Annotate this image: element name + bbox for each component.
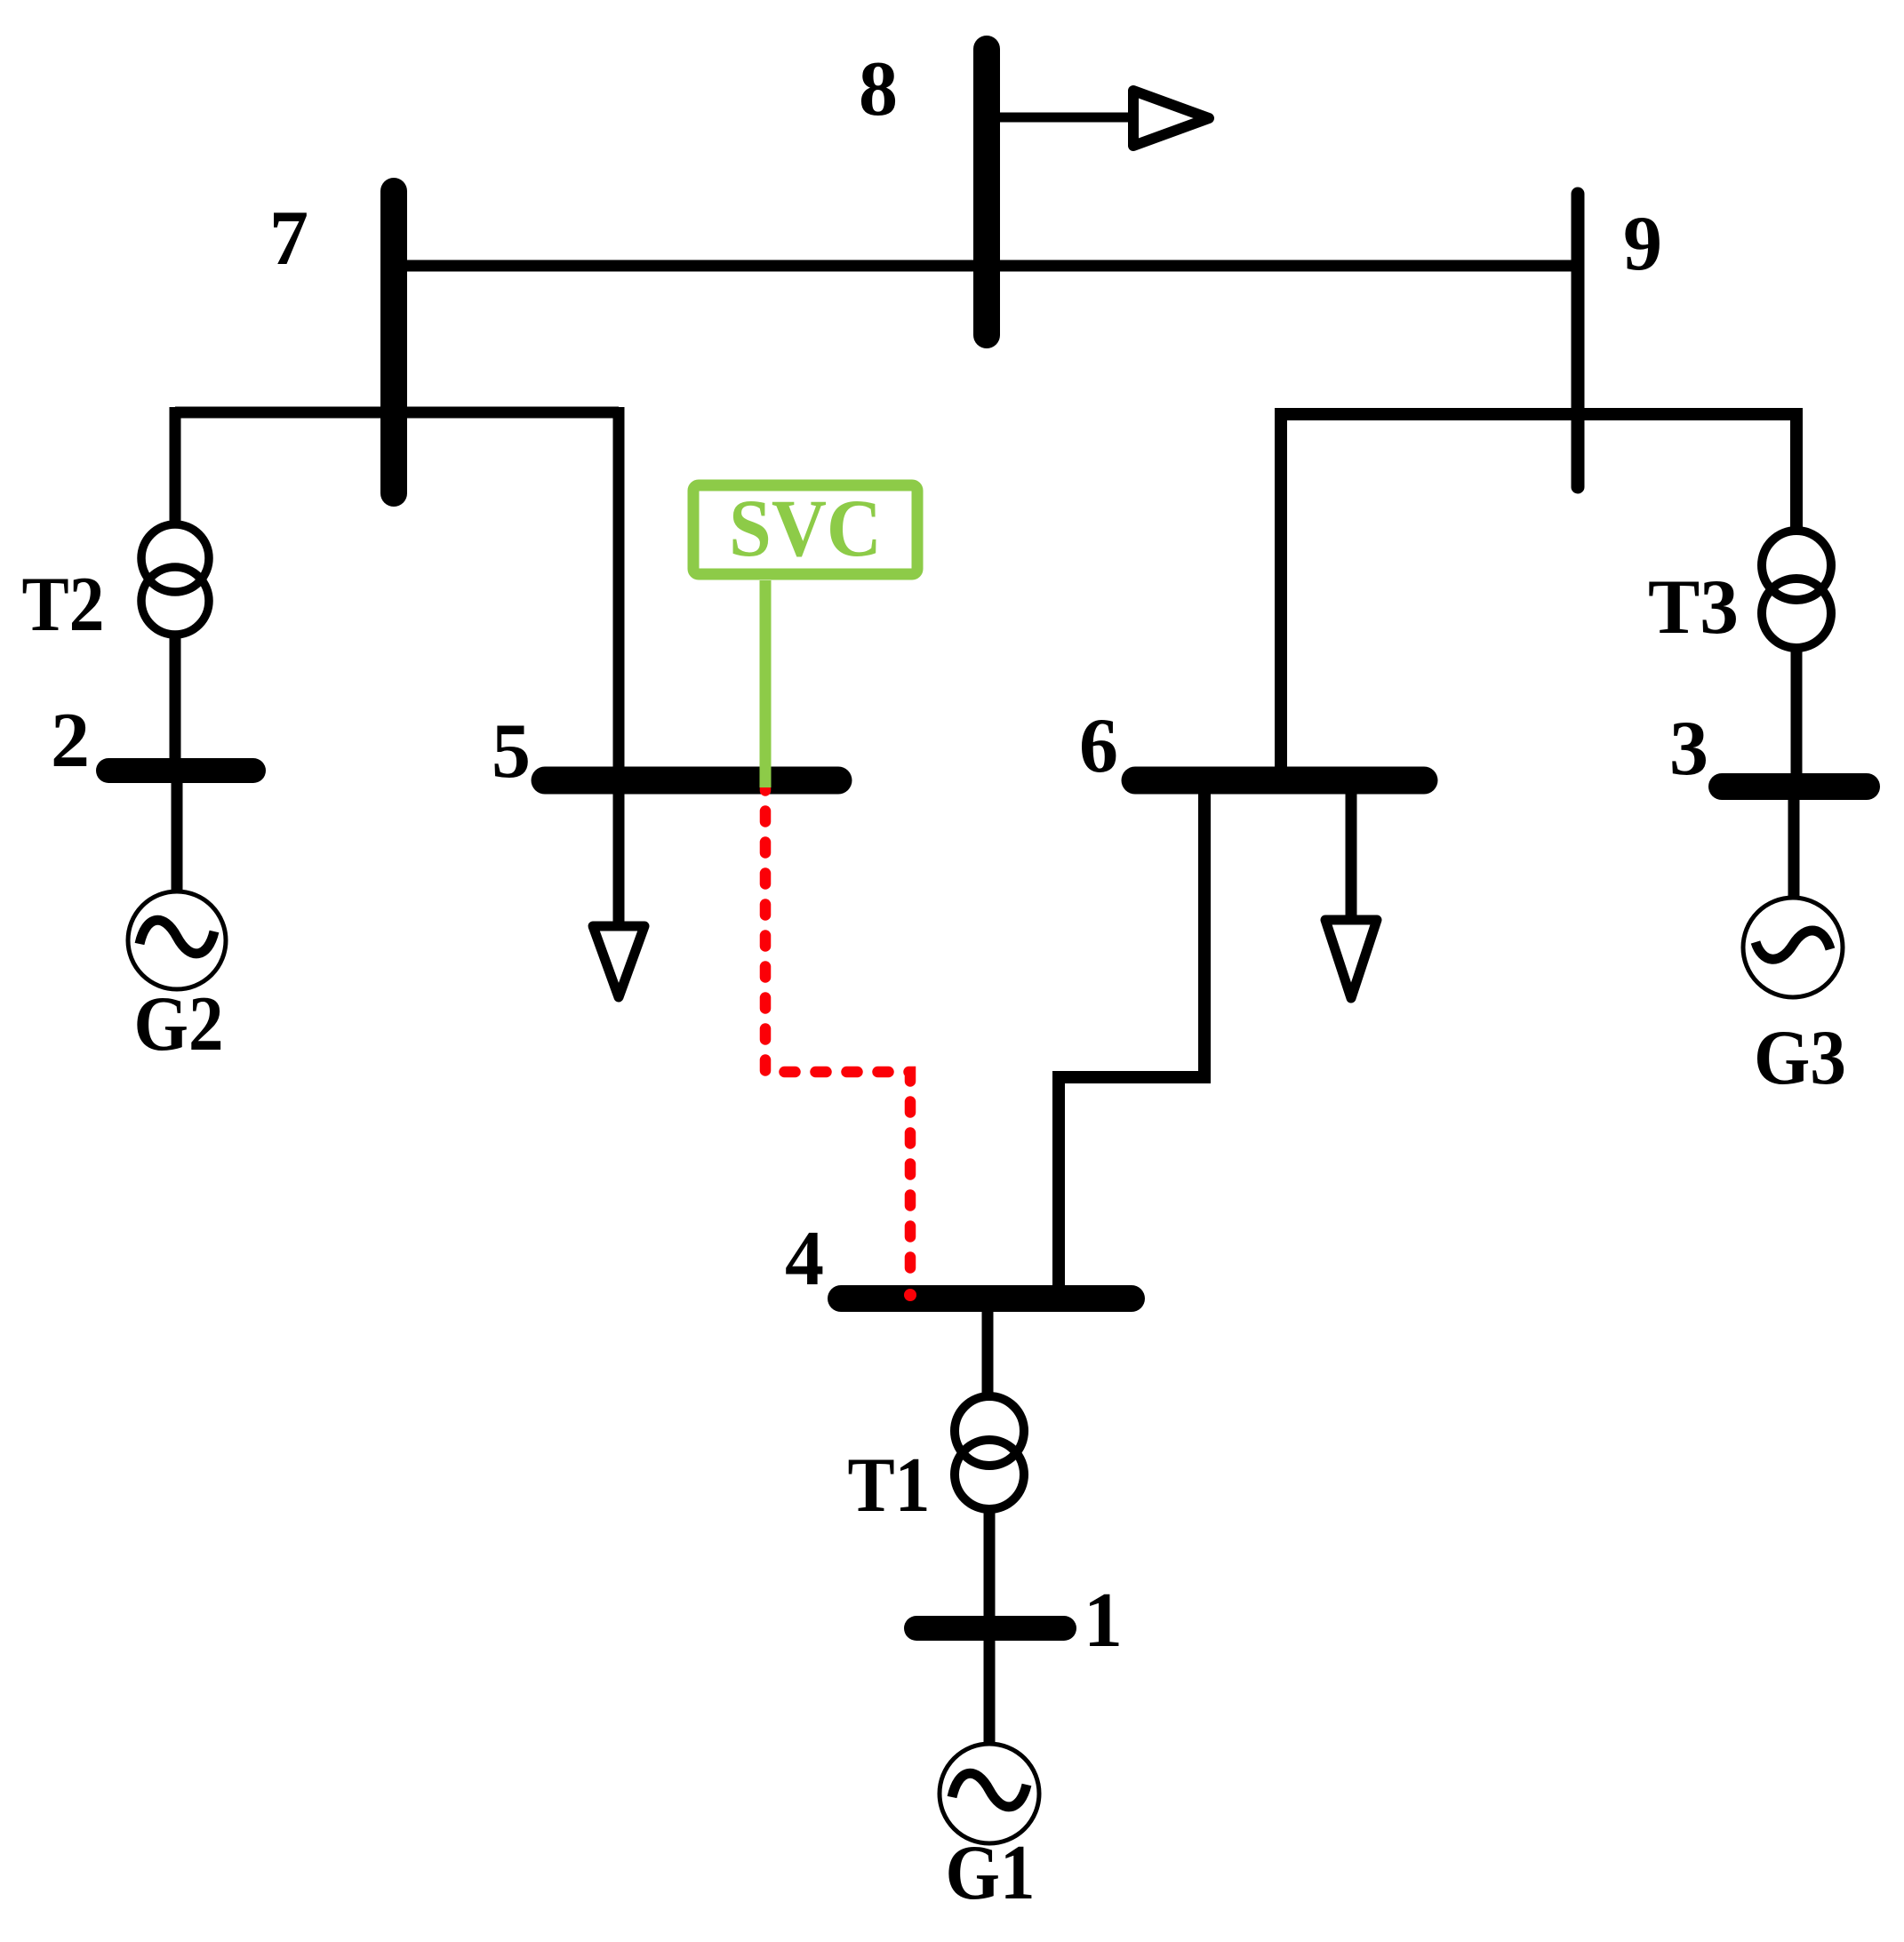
SVC candidate link terminal dot on bus 4 xyxy=(904,1289,916,1301)
wire: T2 to bus2 xyxy=(170,638,181,764)
svg-text:1: 1 xyxy=(1084,1578,1123,1664)
bus 3 xyxy=(1722,773,1867,800)
SVC box xyxy=(693,485,917,574)
transformer T1 xyxy=(955,1396,1024,1509)
svg-text:4: 4 xyxy=(785,1216,824,1302)
svg-text:6: 6 xyxy=(1079,703,1118,789)
svg-text:9: 9 xyxy=(1623,201,1662,287)
bus 1 xyxy=(916,1616,1064,1641)
wire: bus7 branch right drop through bus5 xyxy=(613,407,625,925)
generator G2 xyxy=(128,891,226,989)
load arrow bus8 xyxy=(1133,91,1209,146)
svg-text:T2: T2 xyxy=(22,562,105,648)
svg-text:G2: G2 xyxy=(134,981,224,1067)
SVC link (green) xyxy=(760,580,772,787)
bus 9 xyxy=(1572,194,1585,487)
svg-text:G1: G1 xyxy=(946,1830,1036,1916)
wire: bus7 lower branch horizontal xyxy=(175,407,619,419)
wire: bus6 load feeder xyxy=(1346,787,1357,919)
wire: tie line bus7 to bus9 xyxy=(394,260,1578,272)
generator G1 xyxy=(940,1744,1039,1843)
wire: bus9 lower branch horizontal xyxy=(1281,408,1796,420)
generator G3 xyxy=(1743,898,1843,997)
wire: bus1 to G1 xyxy=(984,1635,996,1743)
wire: zigzag bus6 to bus4 xyxy=(1059,787,1204,1293)
svg-text:T1: T1 xyxy=(848,1443,931,1529)
wire: bus2 to G2 xyxy=(172,778,183,891)
svg-text:3: 3 xyxy=(1669,706,1708,792)
svg-text:G3: G3 xyxy=(1754,1015,1846,1101)
SVC candidate link (red dashed) bus5 to bus4 xyxy=(765,780,910,1278)
wire: bus7 branch left drop to T2 xyxy=(170,407,181,524)
bus 8 xyxy=(973,49,1000,335)
wire: bus8 load feeder xyxy=(994,113,1134,123)
transformer T3 xyxy=(1762,531,1831,648)
wire: bus9 branch right drop to T3 xyxy=(1790,408,1803,527)
bus 5 xyxy=(545,767,838,795)
svg-text:T3: T3 xyxy=(1648,564,1739,651)
svg-text:7: 7 xyxy=(269,196,308,282)
svg-text:SVC: SVC xyxy=(729,483,882,573)
bus 7 xyxy=(380,191,407,493)
wire: bus3 to G3 xyxy=(1788,793,1800,896)
bus 6 xyxy=(1135,767,1424,795)
wire: T1 to bus1 xyxy=(984,1510,996,1622)
wire: T3 to bus3 xyxy=(1791,648,1803,782)
svg-text:2: 2 xyxy=(51,698,90,784)
load arrow bus6 xyxy=(1325,920,1377,998)
svg-text:5: 5 xyxy=(492,708,531,795)
svg-text:8: 8 xyxy=(859,46,898,132)
wire: bus9 branch left drop to bus6 xyxy=(1275,408,1287,779)
transformer T2 xyxy=(141,524,209,635)
bus 2 xyxy=(108,758,253,783)
wire: bus4 to T1 xyxy=(982,1307,994,1393)
load arrow bus5 xyxy=(593,926,644,997)
bus 4 xyxy=(841,1285,1132,1312)
